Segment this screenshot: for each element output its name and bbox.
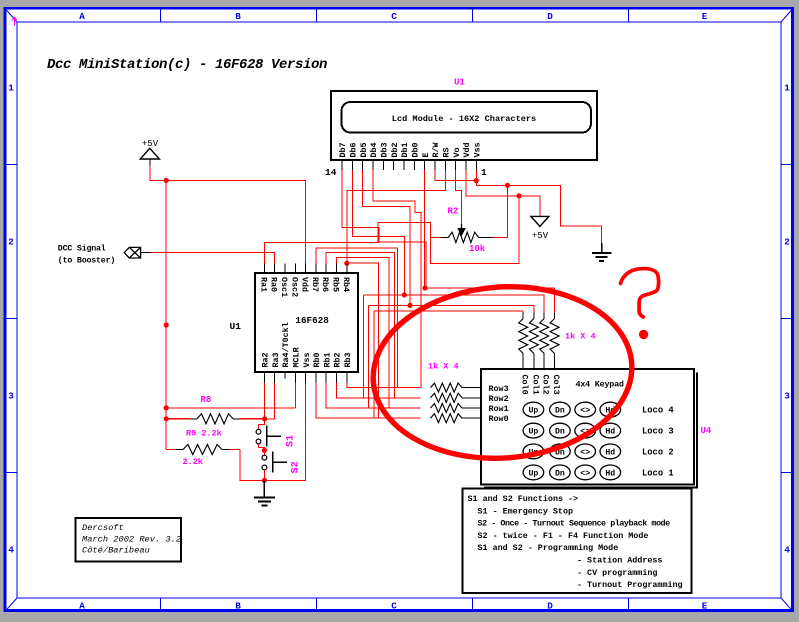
svg-text:Hd: Hd — [605, 468, 615, 478]
svg-text:4x4 Keypad: 4x4 Keypad — [576, 379, 624, 389]
svg-text:Db0: Db0 — [411, 142, 421, 157]
svg-text:Dcc MiniStation(c) - 16F628 Ve: Dcc MiniStation(c) - 16F628 Version — [47, 57, 327, 73]
wire row2 link — [394, 397, 420, 399]
junction dot Vss pin — [474, 178, 479, 183]
wire +5V branch to R2 left — [431, 196, 520, 263]
wire col1 feed horizontal — [364, 295, 545, 313]
svg-text:- Turnout Programming: - Turnout Programming — [577, 580, 683, 590]
svg-text:Rb7: Rb7 — [310, 277, 320, 292]
svg-text:E: E — [421, 152, 431, 157]
wire line3 to ground run — [240, 450, 264, 481]
keypad U4 box with shadow — [481, 369, 698, 488]
wire Ra2 drop — [263, 382, 265, 419]
svg-text:4: 4 — [8, 545, 14, 556]
svg-text:Osc2: Osc2 — [289, 277, 299, 297]
svg-text:Rb2: Rb2 — [333, 352, 343, 367]
zone numbers left — [8, 83, 14, 556]
junction dot Rb4 — [344, 261, 349, 266]
svg-text:1k X 4: 1k X 4 — [565, 332, 596, 342]
svg-text:Loco 4: Loco 4 — [642, 406, 674, 416]
wire E net vertical — [424, 170, 426, 288]
wire Db6 net (LCD Db6 to col1 resistor) — [352, 170, 404, 295]
svg-text:4: 4 — [784, 545, 790, 556]
junction dot +5V branch to R2 — [516, 193, 521, 198]
svg-text:Ra3: Ra3 — [271, 352, 281, 367]
svg-text:16F628: 16F628 — [295, 315, 329, 326]
LCD pin stubs — [342, 160, 476, 170]
svg-text:<>: <> — [580, 407, 590, 416]
ground symbol bottom — [254, 480, 275, 505]
wire col2 feed horizontal — [368, 305, 534, 312]
revision box — [75, 518, 181, 562]
svg-text:S1 and S2 - Programming Mode: S1 and S2 - Programming Mode — [478, 543, 619, 553]
svg-text:U1: U1 — [454, 78, 465, 88]
svg-text:Dn: Dn — [555, 407, 565, 416]
svg-text:Db6: Db6 — [349, 142, 359, 157]
wire +5V to PIC Vdd — [150, 166, 306, 264]
svg-text:Loco 2: Loco 2 — [642, 447, 674, 457]
svg-text:Db4: Db4 — [369, 142, 379, 157]
svg-text:S2 - Once - Turnout Sequence p: S2 - Once - Turnout Sequence playback mo… — [478, 519, 671, 529]
svg-text:<>: <> — [580, 448, 590, 457]
wire Rb2 run — [337, 382, 395, 398]
svg-text:Row0: Row0 — [489, 414, 509, 424]
svg-text:1: 1 — [8, 83, 14, 94]
svg-text:1: 1 — [481, 167, 487, 178]
svg-text:C: C — [391, 601, 397, 612]
wire R8 line (rail to MCLR) — [166, 407, 295, 409]
wire Rb0 run — [316, 382, 379, 418]
svg-text:Rb6: Rb6 — [320, 277, 330, 292]
svg-text:RS: RS — [442, 147, 452, 157]
+5V power symbol right — [531, 216, 549, 240]
wire Rb1 run — [326, 382, 389, 408]
svg-text:R9 2.2k: R9 2.2k — [186, 429, 222, 439]
svg-text:- Station Address: - Station Address — [577, 556, 662, 566]
resistor R9 line2 — [166, 414, 264, 424]
wire R2 right lead riser — [492, 185, 507, 237]
svg-text:A: A — [79, 11, 85, 22]
svg-text:DCC Signal: DCC Signal — [58, 244, 106, 254]
svg-text:Ra2: Ra2 — [261, 352, 271, 367]
svg-text:Db5: Db5 — [359, 142, 369, 157]
svg-text:R2: R2 — [448, 207, 459, 217]
svg-text:D: D — [547, 11, 553, 22]
svg-text:Rb3: Rb3 — [343, 352, 353, 367]
+5V power symbol left — [140, 139, 159, 166]
svg-text:Loco 1: Loco 1 — [642, 468, 674, 478]
svg-text:Up: Up — [528, 428, 538, 437]
wire row4 link — [379, 417, 421, 419]
PIC top pin stubs — [264, 264, 346, 274]
svg-text:A: A — [79, 601, 85, 612]
svg-text:2: 2 — [8, 237, 14, 248]
svg-text:Ra0: Ra0 — [269, 277, 279, 292]
zone letters top — [79, 11, 708, 22]
wire +5V rail down left side — [165, 180, 167, 449]
svg-text:+5V: +5V — [532, 231, 549, 241]
svg-text:Côté/Baribeau: Côté/Baribeau — [82, 546, 150, 556]
svg-text:Dn: Dn — [555, 428, 565, 437]
wire DCC to PIC Ra0 — [151, 253, 275, 264]
svg-text:S2: S2 — [291, 461, 302, 473]
zone letters bottom — [79, 601, 708, 612]
junction dot R2 right branch — [505, 183, 510, 188]
svg-text:Rb5: Rb5 — [331, 277, 341, 292]
svg-text:Vo: Vo — [452, 147, 462, 157]
zone numbers right — [784, 83, 790, 556]
switch S1 — [256, 419, 281, 447]
svg-text:Up: Up — [528, 469, 538, 478]
PIC 16F628 U1 box — [255, 273, 358, 372]
junction dot col2 feed — [407, 303, 412, 308]
svg-text:Osc1: Osc1 — [279, 277, 289, 297]
svg-text:+5V: +5V — [142, 139, 159, 149]
wire Rb4 net to keypad row4 — [347, 263, 379, 418]
svg-text:Ra4/T0ckl: Ra4/T0ckl — [281, 322, 291, 367]
wire Rb6 to row2 — [326, 253, 394, 398]
svg-text:Db2: Db2 — [390, 142, 400, 157]
PIC top pin labels — [258, 277, 350, 297]
svg-text:Col1: Col1 — [530, 375, 540, 395]
wire Rb7 to row1 — [316, 248, 398, 388]
wire Vo to R2 wiper — [456, 170, 462, 224]
wire row1 link — [398, 387, 421, 389]
svg-text:MCLR: MCLR — [292, 346, 302, 367]
svg-text:March 2002 Rev. 3.2: March 2002 Rev. 3.2 — [82, 534, 181, 544]
svg-text:10k: 10k — [469, 244, 486, 254]
junction dot rail-R9 line — [164, 416, 169, 421]
wire MCLR drop — [294, 382, 296, 408]
svg-text:(to Booster): (to Booster) — [58, 256, 115, 266]
DCC Signal label — [58, 244, 115, 266]
svg-text:2.2k: 2.2k — [183, 457, 203, 467]
svg-text:Col3: Col3 — [551, 375, 561, 395]
svg-text:E: E — [702, 11, 708, 22]
wire col3 feed horizontal — [425, 288, 555, 313]
svg-text:D: D — [547, 601, 553, 612]
svg-text:Ra1: Ra1 — [258, 277, 268, 292]
svg-text:Rb1: Rb1 — [322, 352, 332, 367]
svg-text:14: 14 — [325, 167, 337, 178]
svg-text:Dercsoft: Dercsoft — [82, 523, 124, 533]
keypad col pin labels — [520, 375, 561, 395]
wire col1 left drop — [363, 295, 365, 398]
wire Ra3 drop — [265, 382, 275, 419]
keypad loco labels — [642, 406, 674, 479]
svg-text:Row2: Row2 — [489, 394, 509, 404]
svg-text:B: B — [235, 601, 241, 612]
junction dot on rail — [164, 322, 169, 327]
wire Db7 net (LCD Db7 staircase to col3 resistor) — [342, 170, 426, 288]
keypad row pin labels — [489, 384, 509, 424]
svg-text:Hd: Hd — [605, 427, 615, 437]
S1 S2 functions box — [463, 489, 692, 594]
resistor network rows 1k X 4 — [431, 383, 482, 423]
LCD pin name labels — [338, 141, 482, 157]
ground symbol right — [592, 243, 611, 261]
svg-text:Row1: Row1 — [489, 404, 509, 414]
svg-text:S1 - Emergency Stop: S1 - Emergency Stop — [478, 506, 574, 516]
svg-text:Vdd: Vdd — [462, 142, 472, 157]
svg-text:Col2: Col2 — [541, 375, 551, 395]
wire Vdd to +5V — [466, 170, 540, 216]
svg-text:U4: U4 — [701, 426, 712, 436]
svg-text:3: 3 — [784, 391, 790, 402]
svg-text:Loco 3: Loco 3 — [642, 427, 674, 437]
wire row3 link — [389, 407, 420, 409]
svg-text:Vdd: Vdd — [300, 277, 310, 292]
svg-text:S1 and S2 Functions ->: S1 and S2 Functions -> — [468, 494, 579, 504]
resistor 2.2k line3 — [166, 445, 240, 455]
svg-text:1k X 4: 1k X 4 — [428, 362, 459, 372]
svg-text:Hd: Hd — [605, 447, 615, 457]
junction dot col1 feed — [402, 292, 407, 297]
PIC bottom pin stubs — [264, 372, 346, 382]
wire R/W to ground net — [435, 170, 476, 181]
wire S2 to ground rail — [263, 470, 265, 481]
wire col2 left drop — [367, 305, 369, 408]
svg-text:Lcd Module - 16X2 Characters: Lcd Module - 16X2 Characters — [392, 114, 536, 124]
DCC output port symbol — [124, 247, 150, 258]
svg-text:E: E — [702, 601, 708, 612]
svg-text:R8: R8 — [201, 395, 212, 405]
wire Db5 net (LCD Db5 to col2 resistor) — [363, 170, 410, 305]
wire Vss to ground — [476, 170, 601, 243]
wire RS to PIC Rb4 — [347, 170, 446, 263]
junction dot rail-R8 line — [164, 405, 169, 410]
wire col0 feed horizontal — [374, 311, 523, 313]
svg-text:C: C — [391, 11, 397, 22]
corner cursor mark — [12, 17, 17, 26]
svg-text:S2 - twice - F1 - F4 Function: S2 - twice - F1 - F4 Function Mode — [478, 531, 649, 541]
junction dot ground node — [262, 478, 267, 483]
svg-text:3: 3 — [8, 391, 14, 402]
svg-text:R/W: R/W — [431, 141, 441, 157]
wire Rb5 to row3 — [337, 258, 390, 408]
svg-text:Col0: Col0 — [520, 375, 530, 395]
svg-text:U1: U1 — [230, 321, 242, 332]
LCD module U1 box — [331, 91, 597, 160]
svg-text:Dn: Dn — [555, 469, 565, 478]
wire ground rail to PIC Vss — [264, 382, 305, 480]
svg-text:2: 2 — [784, 237, 790, 248]
svg-text:Vss: Vss — [473, 142, 483, 157]
svg-text:B: B — [235, 11, 241, 22]
svg-text:S1: S1 — [286, 435, 297, 447]
resistor network cols 1k X 4 — [519, 313, 559, 370]
svg-text:Rb4: Rb4 — [341, 277, 351, 292]
svg-text:<>: <> — [580, 469, 590, 478]
keypad buttons — [523, 402, 620, 480]
wire col0 left drop — [373, 311, 375, 418]
wire PIC Ra1 to harness — [264, 223, 430, 264]
PIC bottom pin labels — [261, 322, 353, 367]
annotation question mark — [621, 269, 659, 340]
switch S2 — [262, 452, 287, 473]
wire Rb3 run — [347, 382, 398, 387]
svg-text:Up: Up — [528, 407, 538, 416]
svg-text:1: 1 — [784, 83, 790, 94]
resistor R2 potentiometer body — [441, 224, 493, 243]
junction dot Ra2/Ra3 — [262, 416, 267, 421]
wire S1 to S2 — [259, 444, 265, 455]
wire Db4 net (LCD Db4 to col0 resistor) — [373, 170, 421, 388]
svg-text:Db1: Db1 — [400, 142, 410, 157]
svg-text:Row3: Row3 — [489, 384, 509, 394]
svg-text:Db3: Db3 — [380, 142, 390, 157]
junction dot +5V rail — [164, 178, 169, 183]
svg-text:Vss: Vss — [302, 352, 312, 367]
svg-text:Db7: Db7 — [338, 142, 348, 157]
svg-text:- CV programming: - CV programming — [577, 568, 657, 578]
junction dot col3 feed — [422, 285, 427, 290]
svg-text:Rb0: Rb0 — [312, 352, 322, 367]
annotation ellipse — [367, 278, 637, 467]
junction dot S1-S2 — [262, 448, 267, 453]
